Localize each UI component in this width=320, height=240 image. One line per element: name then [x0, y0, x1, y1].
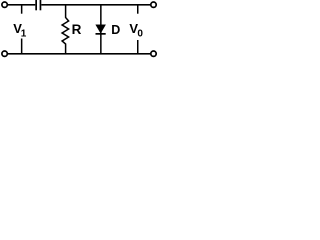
node V0 bottom tick — [137, 40, 139, 54]
terminal bottom-left — [2, 51, 7, 56]
node V0 top tick — [137, 5, 139, 14]
svg-text:D: D — [111, 23, 120, 37]
diode D cathode bar — [96, 33, 106, 35]
node V1 bottom tick — [21, 39, 23, 54]
capacitor C right plate — [40, 0, 42, 10]
resistor R — [62, 5, 69, 54]
terminal top-right — [151, 2, 156, 7]
svg-text:1: 1 — [21, 29, 27, 40]
wire top-right segment — [41, 4, 150, 6]
node V1 top tick — [21, 5, 23, 14]
svg-text:0: 0 — [137, 29, 143, 40]
capacitor C left plate — [35, 0, 37, 10]
diode D triangle — [96, 25, 106, 34]
wire bottom — [7, 53, 150, 55]
wire top-left segment — [7, 4, 35, 6]
diode D lead — [100, 5, 102, 54]
terminal top-left — [2, 2, 7, 7]
terminal bottom-right — [151, 51, 156, 56]
svg-text:R: R — [72, 22, 82, 37]
